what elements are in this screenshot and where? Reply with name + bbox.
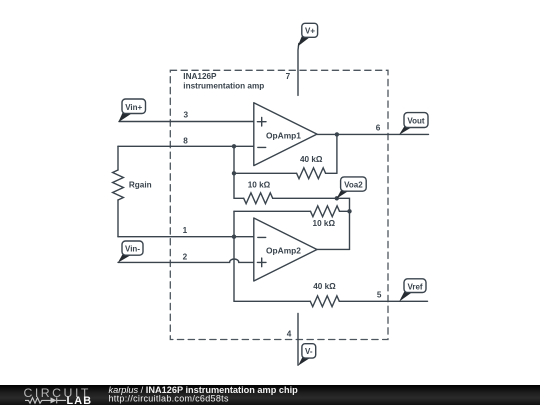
svg-text:Voa2: Voa2 xyxy=(344,181,363,190)
pin 1 label xyxy=(183,226,188,235)
flag V+ xyxy=(298,23,318,46)
svg-text:V-: V- xyxy=(305,347,313,356)
pin 3 label xyxy=(184,110,189,119)
op-amp U2 OpAmp2 xyxy=(254,218,317,281)
wire pin2: Vin- to OpAmp2 + input (hop over vertical) xyxy=(118,259,254,262)
wire vertical x234 lower segment xyxy=(233,211,235,301)
svg-text:OpAmp2: OpAmp2 xyxy=(266,245,301,255)
svg-text:1: 1 xyxy=(183,226,188,235)
wire 10k first left lead xyxy=(234,197,244,199)
op-amp U1 OpAmp1 xyxy=(254,103,317,166)
wire vertical from output node to 40k feedback xyxy=(336,134,338,173)
resistor R 40k top xyxy=(297,168,326,179)
svg-text:Vin+: Vin+ xyxy=(125,103,142,112)
svg-text:Rgain: Rgain xyxy=(129,181,152,190)
svg-text:10 kΩ: 10 kΩ xyxy=(248,181,271,190)
label OpAmp1 xyxy=(266,130,301,140)
IC boundary dashed box INA126P xyxy=(170,70,388,339)
wire 10k second left lead and corner down xyxy=(234,210,311,212)
svg-text:INA126P: INA126P xyxy=(183,72,217,81)
svg-text:5: 5 xyxy=(377,291,382,300)
resistor R 10k second xyxy=(311,206,340,217)
footer title line xyxy=(109,385,299,395)
node junction pin1/vertical xyxy=(232,235,236,239)
label 10 kOhm second xyxy=(313,219,336,228)
label 10 kOhm first xyxy=(248,181,271,190)
wire pin8: left rail to OpAmp1 - input xyxy=(118,145,254,147)
wire 40k bottom right lead to Vref xyxy=(339,300,427,302)
pin 2 label xyxy=(183,253,188,262)
svg-text:Vin-: Vin- xyxy=(125,245,140,254)
svg-text:7: 7 xyxy=(286,72,291,81)
svg-text:8: 8 xyxy=(183,136,188,145)
svg-text:instrumentation amp: instrumentation amp xyxy=(183,82,264,91)
logo LAB text xyxy=(67,395,93,405)
flag Vout xyxy=(399,113,428,135)
footer url line xyxy=(109,393,229,403)
label Rgain xyxy=(129,181,152,190)
svg-text:6: 6 xyxy=(376,124,381,133)
wire pin3: Vin+ to OpAmp1 + input xyxy=(119,121,254,123)
footer black bar xyxy=(0,385,540,405)
svg-text:40 kΩ: 40 kΩ xyxy=(313,282,336,291)
pin 7 label xyxy=(286,72,291,81)
flag Voa2 xyxy=(337,177,367,199)
label 40 kOhm top xyxy=(300,155,323,164)
svg-text:4: 4 xyxy=(287,330,292,339)
resistor R 10k first xyxy=(244,193,273,204)
logo CIRCUIT text xyxy=(24,385,91,399)
label IC name INA126P instrumentation amp xyxy=(183,72,264,90)
svg-text:10 kΩ: 10 kΩ xyxy=(313,219,336,228)
resistor Rgain xyxy=(113,170,124,200)
wire 40k bottom left lead xyxy=(234,300,310,302)
pin 4 label xyxy=(287,330,292,339)
pin 8 label xyxy=(183,136,188,145)
svg-text:40 kΩ: 40 kΩ xyxy=(300,155,323,164)
flag V- xyxy=(298,344,316,366)
svg-text:LAB: LAB xyxy=(67,395,93,405)
label OpAmp2 xyxy=(266,245,301,255)
wire 10k second right lead xyxy=(340,210,350,212)
node junction 40k/vertical xyxy=(232,171,236,175)
wire pin1: left rail to OpAmp2 - input xyxy=(118,236,254,238)
wire V+ supply stub pin7 xyxy=(297,44,300,96)
svg-text:V+: V+ xyxy=(305,27,315,36)
wire V- supply stub pin4 xyxy=(297,313,299,365)
svg-text:Vref: Vref xyxy=(407,282,422,291)
flag Vref xyxy=(399,279,426,302)
wire 40k top right lead xyxy=(326,172,337,174)
wire left vertical Rgain bottom lead xyxy=(117,200,119,237)
flag Vin+ xyxy=(118,99,145,122)
svg-text:http://circuitlab.com/c6d58ts: http://circuitlab.com/c6d58ts xyxy=(109,393,229,403)
node junction 10k2/OpAmp2 output xyxy=(347,209,351,213)
flag Vin- xyxy=(118,241,143,263)
resistor R 40k bottom xyxy=(310,296,339,307)
svg-text:3: 3 xyxy=(184,110,189,119)
wire OpAmp2 output xyxy=(317,248,350,250)
wire 40k top left lead xyxy=(234,172,297,174)
wire 10k first right lead to Voa2 node and down to OpAmp2 output xyxy=(273,198,350,249)
node Voa2 junction xyxy=(335,196,339,200)
label 40 kOhm bottom xyxy=(313,282,336,291)
svg-text:Vout: Vout xyxy=(407,117,425,126)
logo schematic squiggle (resistor + diode) xyxy=(25,397,66,403)
svg-text:OpAmp1: OpAmp1 xyxy=(266,130,301,140)
pin 5 label xyxy=(377,291,382,300)
pin 6 label xyxy=(376,124,381,133)
wire OpAmp1 output to Vout xyxy=(317,133,429,135)
wire vertical x234 upper segment xyxy=(233,146,235,198)
node junction pin8/feedback xyxy=(232,144,236,148)
wire left vertical Rgain top lead xyxy=(117,146,119,170)
svg-text:2: 2 xyxy=(183,253,188,262)
node junction OpAmp1 output xyxy=(335,132,339,136)
